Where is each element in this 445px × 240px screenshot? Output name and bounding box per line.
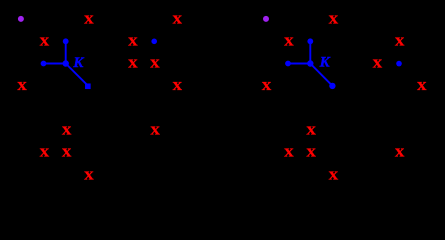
red cross right (c3,r0) (329, 8, 339, 27)
red cross left (c2,r5) (62, 120, 72, 139)
red cross left (c6,r2) (150, 53, 160, 72)
red cross left (c1,r1) (40, 31, 50, 50)
red cross right (c1,r6) (284, 142, 294, 161)
claw K2 edge vertical (309, 41, 311, 63)
claw K1 junction vertex (62, 60, 68, 66)
red cross left (c5,r2) (128, 53, 138, 72)
svg-text:K: K (319, 54, 331, 70)
blue point right (c6,r2) (396, 61, 402, 67)
claw K2 edge diagonal (310, 64, 332, 86)
blue point left (c6,r1) (151, 39, 157, 45)
red cross right (c6,r6) (395, 142, 405, 161)
red cross right (c1,r1) (284, 31, 294, 50)
red cross left (c6,r5) (150, 120, 160, 139)
red cross right (c0,r3) (262, 75, 272, 94)
red cross left (c3,r0) (84, 8, 94, 27)
claw K1 edge vertical (65, 41, 67, 63)
red cross left (c5,r1) (128, 31, 138, 50)
red cross left (c0,r3) (17, 75, 27, 94)
claw K2 left vertex (285, 61, 291, 67)
claw K1 edge diagonal (66, 64, 88, 86)
purple point P1 left (18, 16, 24, 22)
claw K1 top vertex (63, 38, 69, 44)
red cross left (c2,r6) (62, 142, 72, 161)
red cross left (c7,r0) (172, 8, 182, 27)
red cross right (c3,r7) (329, 164, 339, 183)
red cross left (c7,r3) (172, 75, 182, 94)
claw K1 edge horizontal (44, 63, 66, 65)
claw K1 square vertex (85, 83, 91, 89)
claw K1 left vertex (41, 61, 47, 67)
red cross left (c1,r6) (40, 142, 50, 161)
red cross right (c7,r3) (417, 75, 427, 94)
red cross right (c5,r2) (373, 53, 383, 72)
red cross right (c2,r6) (306, 142, 316, 161)
red cross right (c6,r1) (395, 31, 405, 50)
claw K2 bottom-right vertex (329, 83, 335, 89)
red cross right (c2,r5) (306, 120, 316, 139)
claw K2 edge horizontal (288, 63, 310, 65)
claw K2 junction vertex (307, 60, 313, 66)
purple point P2 right (263, 16, 269, 22)
red cross left (c3,r7) (84, 164, 94, 183)
claw K2 top vertex (307, 38, 313, 44)
svg-text:K: K (72, 55, 84, 71)
